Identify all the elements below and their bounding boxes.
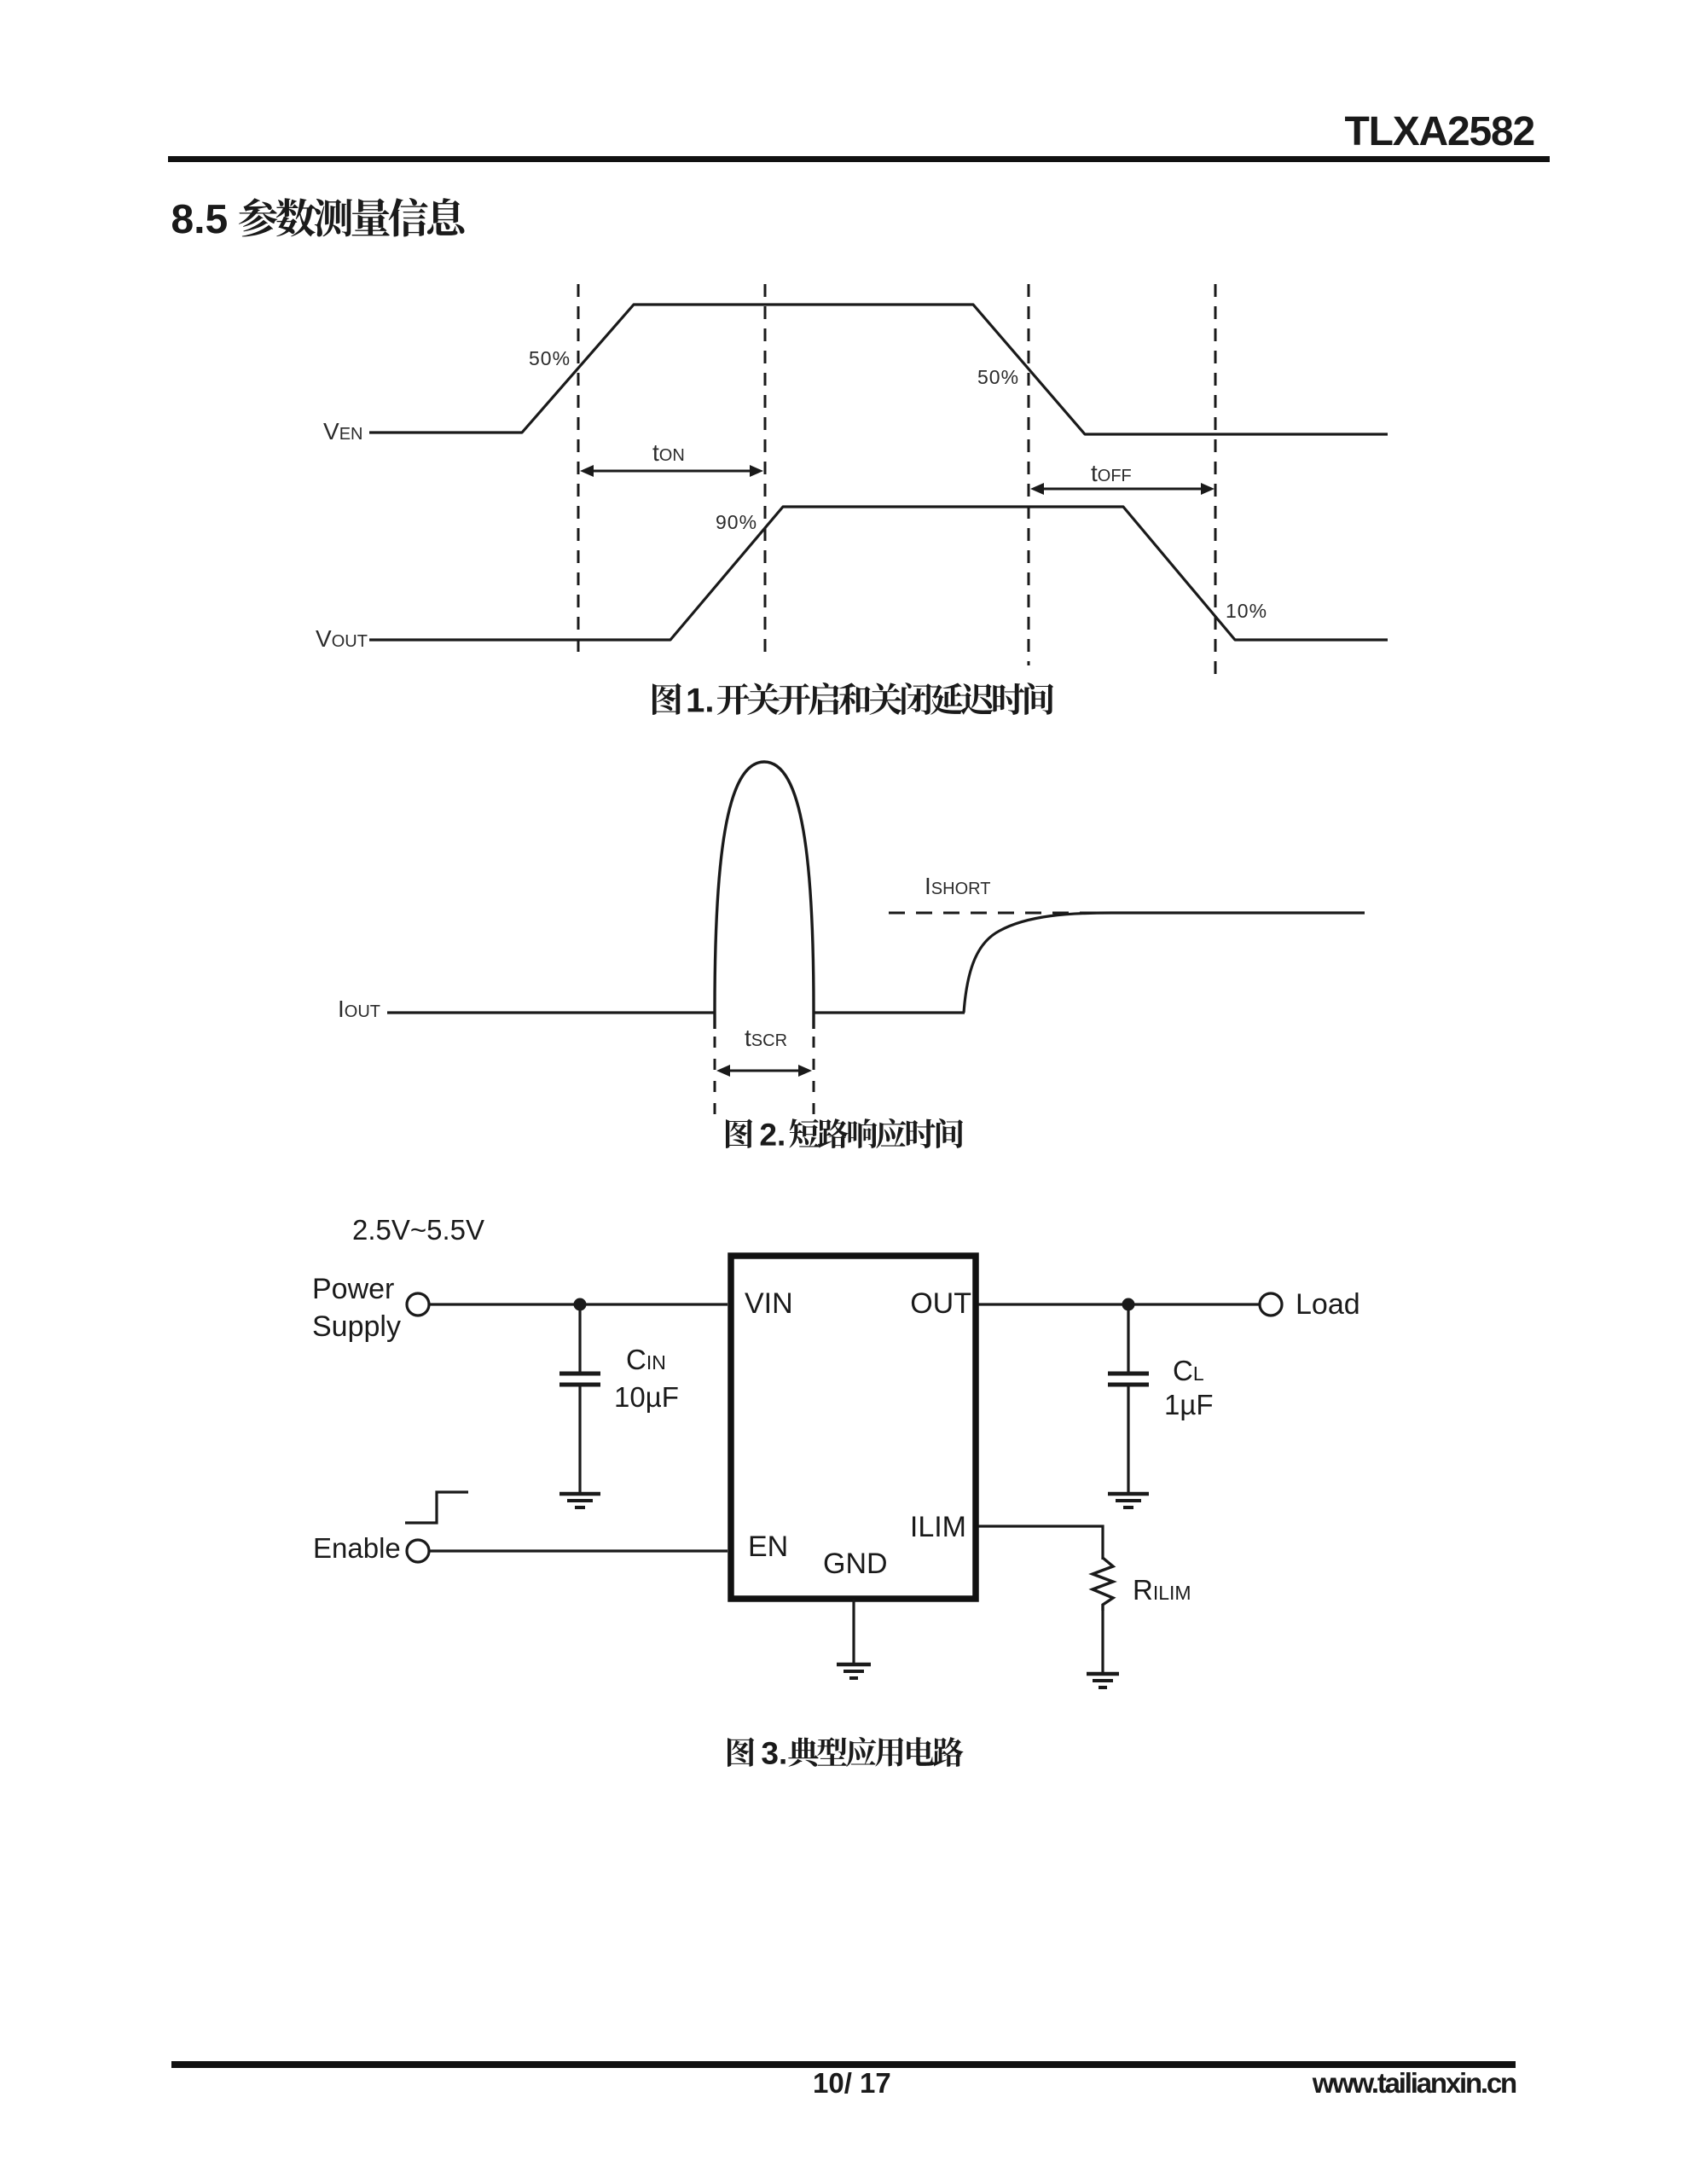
baseline between pulse and recovery (814, 1011, 965, 1014)
label 50% falling (977, 368, 1019, 387)
capacitor CL plates (1108, 1372, 1149, 1376)
label tSCR (745, 1026, 787, 1050)
wire OUT pin to load (978, 1303, 1260, 1305)
dashed marker line 1 (VEN 50% rising) (577, 284, 580, 661)
ground symbol below CIN (559, 1492, 600, 1496)
enable rising edge symbol (405, 1492, 468, 1523)
tON dimension arrow (585, 470, 758, 473)
enable terminal (407, 1540, 429, 1562)
figure 1 caption 图 1. 开关开启和关闭延迟时间 (652, 682, 1053, 715)
tSCR dashed extension left (714, 1037, 716, 1118)
VEN waveform (369, 305, 1388, 434)
label 90% (716, 513, 757, 532)
recovery curve rising to ISHORT (964, 913, 1365, 1013)
label Enable (313, 1534, 401, 1562)
label Power Supply (312, 1270, 401, 1345)
short-circuit current pulse arch (715, 762, 814, 1029)
wire enable to EN pin (429, 1549, 728, 1552)
label Load (1296, 1290, 1360, 1319)
tOFF dimension arrow (1035, 488, 1209, 491)
pin label VIN (745, 1289, 793, 1318)
dashed marker line 4 (VOUT 10% falling) (1215, 284, 1217, 676)
IC U1 outline (731, 1256, 976, 1599)
power supply terminal (407, 1293, 429, 1316)
dashed marker line 2 (VOUT 90% rising) (764, 284, 767, 661)
figure 2 caption 图 2. 短路响应时间 (726, 1118, 963, 1148)
resistor RILIM zigzag (1093, 1558, 1113, 1611)
tSCR dashed extension right (813, 1037, 815, 1118)
VOUT waveform (369, 507, 1388, 640)
ground symbol below RILIM (1087, 1672, 1119, 1676)
footer rule (171, 2061, 1516, 2068)
wire node to CL top plate (1127, 1304, 1129, 1372)
pin label ILIM (910, 1513, 966, 1542)
load terminal (1260, 1293, 1282, 1316)
value label 1uF (1164, 1391, 1214, 1419)
wire power supply to VIN pin (429, 1303, 728, 1305)
label tON (652, 441, 685, 465)
wire node to CIN top plate (578, 1304, 581, 1372)
footer url (1313, 2069, 1516, 2097)
wire CIN bottom plate to ground (578, 1386, 581, 1492)
header rule (168, 156, 1550, 162)
label CIN (626, 1345, 666, 1374)
ground symbol below CL (1108, 1492, 1149, 1496)
section heading 8.5 参数测量信息 (172, 198, 465, 237)
ISHORT level dashed line (889, 912, 1110, 915)
label VOUT (316, 627, 368, 651)
wire CL bottom plate to ground (1127, 1386, 1129, 1492)
label ISHORT (925, 874, 990, 898)
label RILIM (1133, 1576, 1191, 1604)
value label 10uF (614, 1383, 679, 1411)
dashed marker line 3 (VEN 50% falling) (1028, 284, 1030, 665)
pin label EN (748, 1532, 788, 1561)
label 10% (1226, 601, 1267, 621)
label 50% rising (529, 349, 571, 369)
figure 2 IOUT waveform: baseline left segment (387, 1011, 715, 1014)
pin label OUT (910, 1289, 971, 1318)
header part number TLXA2582 (1344, 112, 1534, 153)
wire ILIM pin to resistor (978, 1526, 1103, 1560)
node junction dot at CIN (574, 1298, 587, 1311)
ground symbol below GND pin (837, 1663, 871, 1667)
label VEN (323, 420, 362, 444)
figure 3 caption 图 3.典型应用电路 (728, 1737, 964, 1767)
footer page number (813, 2069, 891, 2097)
label IOUT (338, 997, 380, 1021)
label 2.5V~5.5V supply range (352, 1216, 484, 1244)
capacitor CIN plates (559, 1372, 600, 1376)
wire resistor to ground (1101, 1611, 1104, 1672)
label tOFF (1091, 462, 1132, 485)
node junction dot at CL (1122, 1298, 1135, 1311)
tSCR dimension arrow (722, 1070, 807, 1072)
label CL (1173, 1356, 1204, 1385)
wire GND pin to ground (852, 1600, 855, 1663)
pin label GND (823, 1549, 888, 1578)
